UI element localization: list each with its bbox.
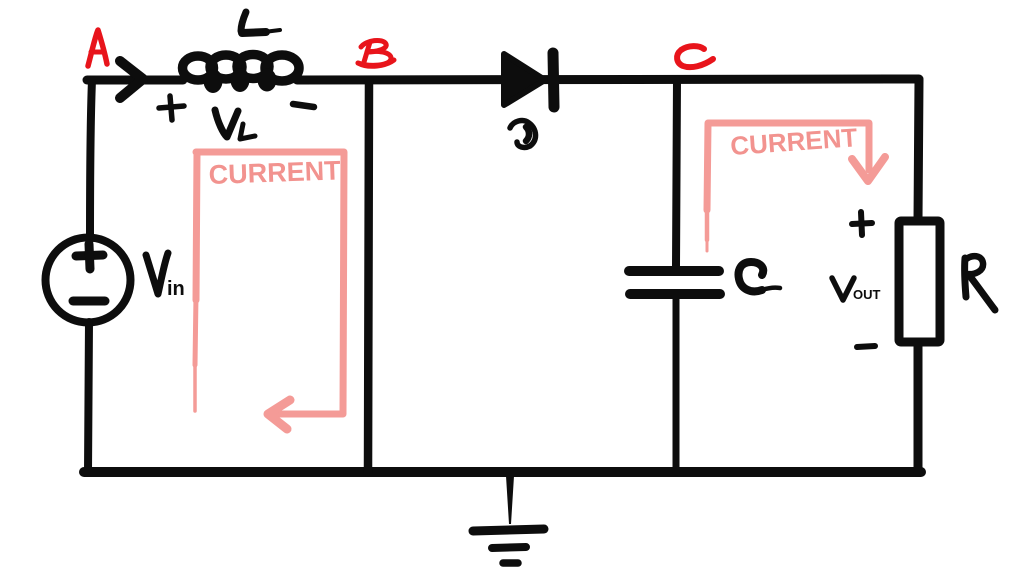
svg-text:OUT: OUT (853, 287, 881, 302)
svg-text:CURRENT: CURRENT (208, 155, 341, 190)
svg-text:in: in (167, 278, 185, 300)
